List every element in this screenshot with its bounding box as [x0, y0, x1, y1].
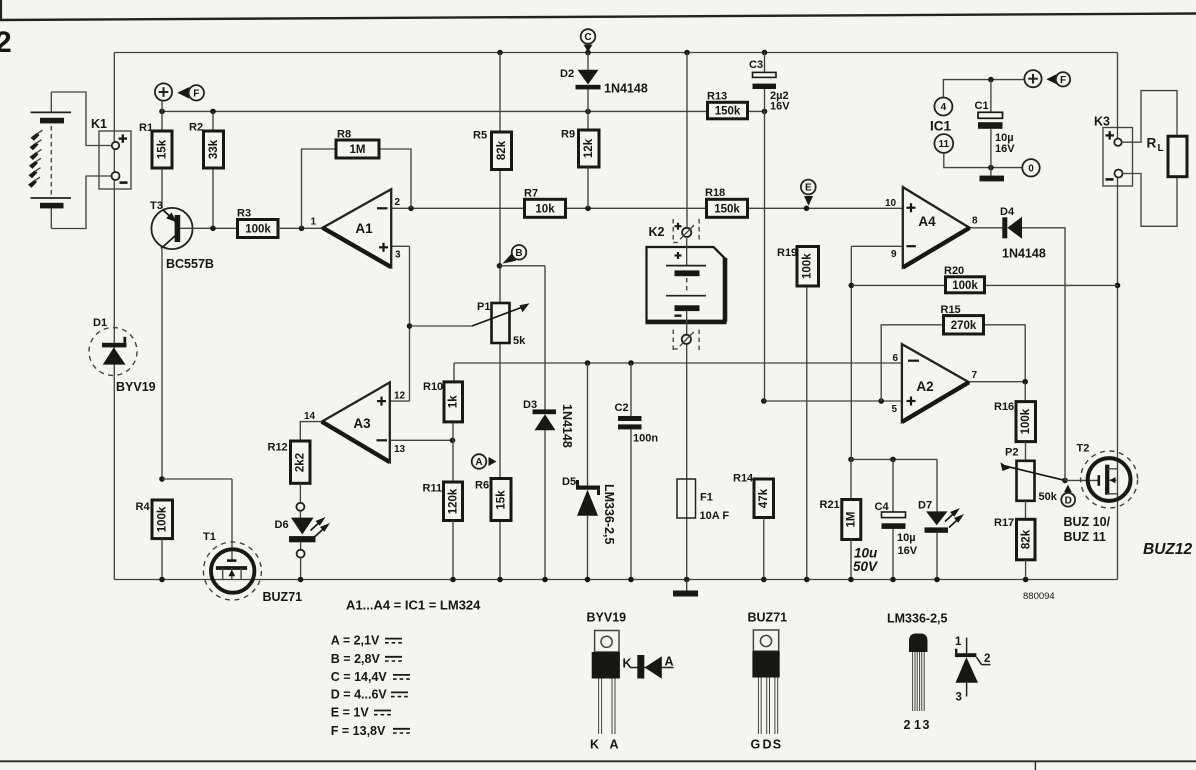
svg-text:F: F	[1060, 75, 1066, 86]
transistor T1 BUZ71	[162, 479, 302, 604]
svg-text:3: 3	[956, 692, 962, 704]
svg-text:R18: R18	[705, 187, 725, 199]
svg-text:A: A	[665, 655, 674, 669]
svg-text:100k: 100k	[157, 506, 169, 532]
svg-text:10A F: 10A F	[700, 510, 730, 522]
capacitor C4	[875, 459, 918, 582]
svg-text:6: 6	[893, 353, 899, 364]
svg-text:C: C	[584, 32, 591, 43]
svg-text:7: 7	[972, 370, 978, 381]
ground under F1	[673, 580, 698, 597]
wire: R5 P1 R6 vertical x500	[497, 53, 503, 583]
svg-text:1N4148: 1N4148	[560, 404, 574, 448]
svg-text:150k: 150k	[714, 204, 740, 216]
board number 880094	[1023, 591, 1055, 602]
svg-text:R21: R21	[820, 499, 840, 511]
wire: A1 inverting row y208	[391, 206, 903, 212]
page top border	[0, 0, 1196, 20]
package BUZ71	[748, 611, 788, 752]
resistor R8 feedback	[302, 129, 412, 229]
legend voltage E	[331, 706, 391, 720]
package BYV19	[587, 611, 627, 752]
node D	[1061, 485, 1075, 507]
resistor R13	[707, 91, 748, 119]
svg-text:1N4148: 1N4148	[1002, 247, 1046, 261]
svg-text:R9: R9	[561, 129, 575, 141]
svg-text:R10: R10	[423, 381, 443, 393]
svg-text:K2: K2	[649, 225, 665, 239]
resistor R16	[994, 382, 1036, 461]
legend voltage B	[331, 652, 402, 666]
svg-text:D4: D4	[1000, 206, 1015, 218]
svg-text:14: 14	[304, 411, 316, 422]
connector K1	[91, 117, 131, 189]
svg-text:K1: K1	[91, 117, 107, 131]
svg-text:T1: T1	[203, 531, 216, 543]
svg-text:16V: 16V	[770, 101, 790, 113]
svg-text:R: R	[1147, 136, 1157, 151]
wire: A3 pin13 row	[390, 438, 456, 444]
svg-text:R3: R3	[237, 208, 251, 220]
svg-text:2: 2	[0, 26, 12, 59]
resistor R17	[994, 501, 1035, 583]
node 0 and ground	[980, 159, 1040, 181]
svg-text:16V: 16V	[995, 143, 1015, 155]
svg-text:270k: 270k	[951, 320, 977, 332]
svg-text:D6: D6	[275, 519, 289, 531]
svg-text:10: 10	[885, 198, 897, 209]
svg-text:R5: R5	[473, 130, 487, 142]
svg-text:3: 3	[395, 250, 401, 261]
IC1 power pins	[930, 77, 1024, 171]
svg-text:1: 1	[914, 718, 921, 732]
svg-text:1: 1	[955, 636, 962, 648]
svg-text:F = 13,8V: F = 13,8V	[331, 724, 386, 738]
resistor R20	[944, 265, 985, 293]
fuse F1	[677, 479, 729, 522]
svg-text:LM336-2,5: LM336-2,5	[887, 612, 947, 626]
svg-text:BC557B: BC557B	[166, 257, 214, 271]
resistor R18	[705, 187, 748, 217]
svg-text:K: K	[590, 738, 599, 752]
wire: panel to K1 plus	[51, 92, 112, 146]
svg-text:D2: D2	[560, 68, 574, 80]
resistor R14	[733, 473, 774, 583]
wire: A1 pin3 to A3 pin12 vertical x409	[390, 246, 413, 401]
svg-text:R17: R17	[994, 517, 1014, 529]
svg-text:1M: 1M	[350, 144, 366, 156]
svg-text:1N4148: 1N4148	[604, 82, 648, 96]
svg-text:9: 9	[891, 249, 897, 260]
resistor R1	[139, 111, 172, 208]
svg-text:R1: R1	[139, 122, 153, 134]
package LM336 zener symbol	[955, 636, 991, 704]
wire: A2 non-inverting row y401	[761, 398, 902, 404]
svg-text:B: B	[515, 248, 522, 259]
resistor R11	[423, 482, 463, 582]
diode D1 BYV19	[89, 317, 156, 394]
svg-text:D: D	[763, 738, 772, 752]
wire: P1 wiper to A-net junction	[410, 325, 473, 327]
svg-text:C2: C2	[615, 402, 629, 414]
svg-text:D: D	[1065, 495, 1072, 506]
svg-text:A: A	[610, 738, 619, 752]
svg-text:50V: 50V	[853, 559, 878, 574]
svg-text:16V: 16V	[898, 545, 918, 557]
svg-text:LM336-2,5: LM336-2,5	[602, 484, 616, 544]
svg-text:13: 13	[394, 444, 406, 455]
svg-text:10µ: 10µ	[897, 532, 916, 544]
svg-text:A1...A4 = IC1 = LM324: A1...A4 = IC1 = LM324	[346, 598, 481, 613]
resistor R2	[189, 111, 224, 228]
svg-text:P2: P2	[1005, 447, 1018, 459]
op-amp A4	[885, 187, 978, 267]
load resistor RL	[1122, 91, 1187, 227]
resistor R6	[475, 479, 511, 521]
svg-text:T3: T3	[150, 200, 163, 212]
resistor R10	[423, 381, 463, 482]
svg-text:BYV19: BYV19	[116, 380, 156, 394]
node C	[581, 29, 596, 52]
svg-text:100k: 100k	[245, 224, 271, 236]
svg-text:A2: A2	[916, 379, 933, 394]
svg-text:R13: R13	[707, 91, 727, 103]
LED D7	[918, 500, 964, 583]
resistor R5	[473, 130, 512, 170]
capacitor C3	[749, 53, 790, 113]
svg-text:12: 12	[394, 391, 406, 402]
svg-text:T2: T2	[1077, 443, 1090, 455]
svg-text:0: 0	[1028, 164, 1034, 175]
wire: A4 feedback vertical x851	[849, 246, 903, 459]
svg-text:1: 1	[311, 217, 317, 228]
figure number 2	[0, 26, 12, 59]
legend voltage F	[331, 724, 410, 738]
capacitor C1	[975, 80, 1016, 168]
wire: A2 output	[969, 379, 1028, 385]
svg-text:47k: 47k	[758, 488, 770, 508]
svg-text:G: G	[751, 738, 761, 752]
svg-text:4: 4	[941, 102, 947, 113]
svg-text:BUZ71: BUZ71	[263, 590, 303, 604]
svg-text:A3: A3	[353, 416, 371, 431]
svg-text:R4: R4	[136, 501, 151, 513]
svg-text:D7: D7	[918, 500, 932, 512]
svg-text:A1: A1	[355, 221, 373, 236]
LED D6	[275, 483, 331, 582]
wire: left rail through K1	[113, 53, 115, 580]
page bottom border	[0, 761, 1196, 770]
svg-text:C4: C4	[875, 501, 890, 513]
connector K3	[1094, 115, 1133, 187]
svg-text:8: 8	[972, 216, 978, 227]
svg-text:P1: P1	[477, 301, 490, 313]
svg-text:BUZ 10/: BUZ 10/	[1064, 515, 1111, 529]
svg-text:C = 14,4V: C = 14,4V	[331, 670, 388, 684]
svg-text:100k: 100k	[1020, 408, 1032, 434]
wire: K2 F1 vertical x687	[684, 53, 690, 583]
wire: right rail to K3 and down	[1115, 53, 1121, 580]
svg-text:L: L	[1158, 143, 1164, 154]
wire: bottom ground rail	[114, 579, 1117, 581]
diode D4 1N4148	[970, 206, 1066, 480]
potentiometer P2	[1000, 447, 1067, 504]
svg-text:A: A	[475, 457, 482, 468]
resistor R7	[524, 188, 566, 218]
transistor T3 BC557B	[150, 200, 238, 479]
wire: panel to K1 minus	[51, 176, 111, 229]
svg-text:K: K	[623, 656, 632, 670]
node F top-left	[155, 83, 204, 111]
wire: R19 vertical x807	[804, 286, 810, 582]
legend voltage A	[331, 634, 402, 648]
svg-text:R11: R11	[423, 483, 443, 495]
wire: B node jog to D3	[500, 266, 548, 583]
wire: R20 row y285	[851, 284, 1117, 286]
resistor R15 feedback	[881, 304, 1025, 401]
svg-text:880094: 880094	[1023, 591, 1055, 602]
node B	[503, 245, 527, 264]
svg-text:11: 11	[939, 139, 950, 150]
svg-text:2: 2	[904, 718, 911, 732]
connector K2 with battery	[646, 219, 727, 352]
svg-text:R20: R20	[944, 265, 964, 277]
legend voltage D	[331, 687, 408, 701]
resistor R9	[561, 129, 599, 209]
svg-text:2k2: 2k2	[295, 453, 307, 472]
svg-text:D = 4...6V: D = 4...6V	[331, 687, 388, 701]
svg-text:BUZ 11: BUZ 11	[1064, 530, 1106, 544]
svg-text:82k: 82k	[1021, 529, 1033, 549]
svg-text:D1: D1	[93, 317, 107, 329]
svg-text:A4: A4	[918, 214, 936, 229]
svg-text:1k: 1k	[448, 395, 460, 408]
legend voltage C	[331, 670, 410, 684]
svg-text:33k: 33k	[208, 139, 220, 159]
diode D2 1N4148	[560, 53, 648, 131]
wire: R21 C4 D7 node row y459	[848, 457, 937, 512]
svg-text:R15: R15	[941, 304, 961, 316]
svg-text:S: S	[773, 738, 781, 752]
svg-text:A = 2,1V: A = 2,1V	[331, 634, 380, 648]
svg-text:120k: 120k	[448, 488, 460, 514]
svg-text:100k: 100k	[802, 253, 814, 279]
potentiometer P1	[472, 301, 530, 347]
svg-text:BUZ71: BUZ71	[748, 611, 788, 625]
resistor R3	[237, 208, 323, 238]
svg-text:3: 3	[923, 718, 930, 732]
svg-text:R16: R16	[994, 401, 1014, 413]
solar panel	[28, 92, 71, 229]
package LM336-2,5	[887, 612, 947, 733]
svg-text:2: 2	[395, 197, 401, 208]
svg-text:F: F	[193, 88, 199, 99]
resistor R12	[268, 441, 311, 483]
node A	[472, 454, 497, 469]
wire: +F row y111	[159, 109, 767, 115]
svg-text:82k: 82k	[496, 140, 508, 160]
svg-text:K3: K3	[1094, 115, 1110, 129]
svg-text:150k: 150k	[715, 106, 741, 118]
svg-text:10k: 10k	[535, 204, 555, 216]
annotation BUZ12	[1143, 541, 1192, 558]
svg-text:R14: R14	[733, 473, 754, 485]
svg-text:R8: R8	[337, 129, 351, 141]
svg-text:100n: 100n	[633, 433, 658, 445]
svg-text:C1: C1	[975, 100, 989, 112]
diode D3 1N4148	[523, 399, 574, 448]
op-amp A1	[311, 189, 402, 267]
wire: top supply rail C	[114, 50, 1117, 56]
op-amp A2	[892, 344, 978, 422]
resistor R21	[820, 459, 879, 582]
svg-text:BUZ12: BUZ12	[1143, 541, 1192, 558]
svg-text:2: 2	[984, 653, 990, 665]
wire: C3 vertical x764	[764, 89, 766, 401]
zener D5 LM336-2,5	[562, 363, 616, 582]
svg-text:E: E	[805, 183, 812, 194]
svg-text:5k: 5k	[513, 335, 526, 347]
transistor T2 BUZ10	[1064, 443, 1138, 545]
svg-text:15k: 15k	[496, 490, 508, 510]
svg-text:12k: 12k	[583, 138, 595, 158]
svg-text:R12: R12	[268, 442, 288, 454]
svg-text:D3: D3	[523, 399, 537, 411]
wire: A3 pin14 to R12	[300, 422, 322, 441]
svg-text:100k: 100k	[952, 280, 978, 292]
resistor R19	[777, 247, 819, 287]
svg-text:R6: R6	[475, 480, 489, 492]
wire: A2 inverting row y363	[454, 360, 902, 382]
node E	[801, 180, 816, 206]
svg-text:15k: 15k	[157, 139, 169, 159]
svg-text:BYV19: BYV19	[587, 611, 627, 625]
svg-text:E = 1V: E = 1V	[331, 706, 370, 720]
svg-text:50k: 50k	[1039, 491, 1058, 503]
svg-text:R7: R7	[524, 188, 538, 200]
svg-text:F1: F1	[700, 492, 713, 504]
op-amp A3	[304, 382, 406, 462]
svg-text:R19: R19	[777, 247, 797, 259]
node F top-right	[1024, 70, 1070, 87]
svg-text:B = 2,8V: B = 2,8V	[331, 652, 381, 666]
svg-text:5: 5	[892, 404, 898, 415]
svg-text:C3: C3	[749, 59, 763, 71]
legend LM324	[346, 598, 481, 613]
svg-text:IC1: IC1	[930, 119, 952, 134]
capacitor C2	[615, 363, 659, 582]
package BYV19 diode symbol	[623, 655, 674, 679]
svg-text:R2: R2	[189, 122, 203, 134]
svg-text:D5: D5	[562, 476, 576, 488]
resistor R4	[136, 476, 173, 582]
svg-text:1M: 1M	[846, 512, 858, 528]
